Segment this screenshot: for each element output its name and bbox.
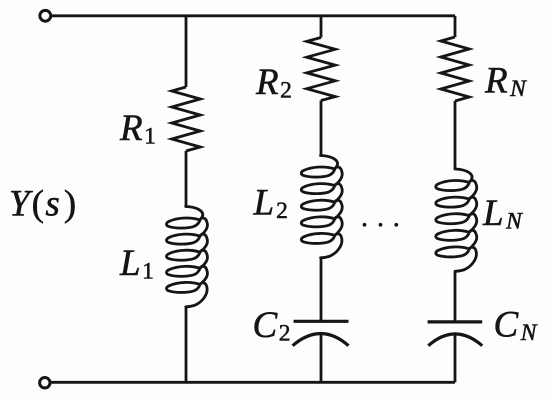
svg-text:Y(s): Y(s) [9,184,76,225]
